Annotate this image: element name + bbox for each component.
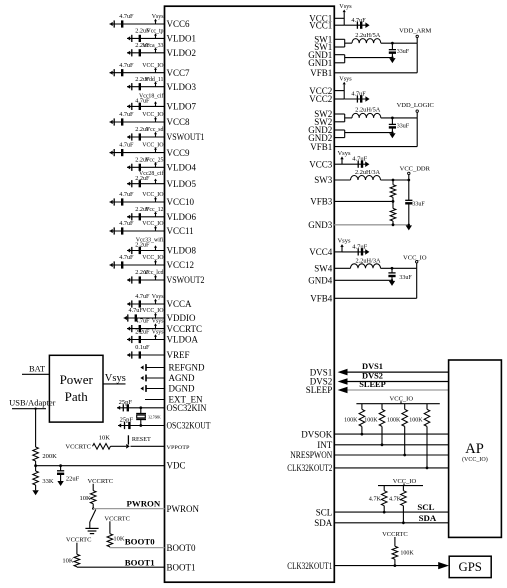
capacitor C5 2.2uF	[127, 76, 150, 91]
capacitor C14 4.7uF	[110, 220, 135, 235]
wire VFB4 feedback	[334, 268, 416, 298]
svg-text:DVS1: DVS1	[362, 362, 383, 371]
svg-text:VCC11: VCC11	[167, 226, 194, 236]
svg-text:(VCC_IO): (VCC_IO)	[462, 456, 488, 463]
pin label VCC12	[167, 260, 195, 270]
pin label SW3 (right)	[314, 175, 333, 185]
pin label SW4 (right)	[314, 264, 333, 274]
pin label SW1 (right)	[314, 35, 332, 45]
pin label VFB3 (right)	[310, 197, 333, 207]
svg-text:INT: INT	[317, 440, 332, 450]
svg-text:VFB3: VFB3	[310, 197, 333, 207]
svg-text:Vcc_tp: Vcc_tp	[146, 29, 163, 35]
net Vsys	[152, 294, 164, 304]
net VCC_IO	[142, 308, 164, 318]
net Vcc_sd	[146, 127, 164, 137]
wire SW4 to VCC_IO	[381, 267, 417, 269]
wire CLK32KOUT1 to GPS	[334, 562, 449, 569]
ground pin AGND	[140, 375, 164, 382]
capacitor 4.7uF (VCC3)	[352, 156, 369, 168]
svg-text:SW3: SW3	[314, 175, 333, 185]
wire VCC4 pin	[334, 251, 365, 253]
net Vcc_tp	[146, 29, 163, 39]
svg-text:Vcca_33: Vcca_33	[143, 43, 164, 49]
svg-text:Vsys: Vsys	[105, 373, 126, 384]
svg-text:VLDO6: VLDO6	[167, 212, 197, 222]
capacitor 4.7uF (VCC1)	[344, 17, 369, 29]
resistor R9 100K (CLK32KOUT1)	[392, 537, 414, 567]
capacitor C22 0.1uF	[127, 344, 150, 359]
pin label VLDOA	[167, 335, 199, 345]
net label BOOT0	[125, 537, 155, 547]
svg-text:VCC_IO: VCC_IO	[142, 221, 164, 227]
pin label CLK32KOUT2 (right)	[287, 463, 332, 473]
pin label VLDO5	[167, 179, 197, 189]
IC U1 PMIC body	[165, 6, 335, 582]
resistor 4.7K (SDA)	[389, 486, 406, 525]
svg-text:VCCRTC: VCCRTC	[66, 537, 92, 544]
wire VCC3 pin	[334, 163, 365, 165]
wire VCCRTC pin	[127, 328, 165, 330]
pin label DGND	[169, 384, 195, 394]
pin label SW2 (right)	[314, 117, 332, 127]
pin label VCC3 (right)	[309, 159, 333, 169]
net Vsys (power path output)	[103, 373, 126, 384]
wire NRESPWON	[334, 454, 448, 456]
capacitor C8 2.2uF	[127, 126, 150, 141]
svg-text:2.2uH/3A: 2.2uH/3A	[355, 169, 380, 176]
pin label SW2 (right)	[314, 109, 332, 119]
wire VCC11 pin	[110, 230, 165, 232]
wire OSC32KIN pin	[117, 407, 165, 409]
svg-text:VLDO5: VLDO5	[167, 179, 197, 189]
svg-text:Vsys: Vsys	[337, 238, 350, 245]
inductor L3 2.2uH/3A	[351, 169, 381, 180]
wire VLDOA pin	[127, 339, 165, 341]
net VCCRTC (PWRON pullup)	[87, 478, 113, 485]
wire VLDO1 pin	[127, 37, 165, 39]
net VCCRTC (GPS clock pullup)	[382, 531, 408, 538]
svg-text:SLEEP: SLEEP	[306, 385, 333, 395]
capacitor C17 2.2uF	[127, 269, 150, 284]
svg-text:GND4: GND4	[308, 276, 332, 286]
net Vcc18_cif	[139, 93, 164, 107]
svg-text:VCCRTC: VCCRTC	[382, 531, 408, 538]
svg-text:4.7uF: 4.7uF	[352, 156, 367, 163]
block AP application processor	[449, 360, 502, 537]
svg-text:Vcc_sd: Vcc_sd	[146, 127, 164, 133]
wire OSC32KOUT pin	[118, 425, 165, 427]
svg-text:VFB1: VFB1	[310, 142, 332, 152]
svg-text:Vcc33_wifi: Vcc33_wifi	[136, 237, 164, 244]
wire VCC12 pin	[110, 264, 165, 266]
net Vsys	[152, 14, 164, 24]
wire SW3 pin	[334, 179, 350, 181]
net Vcc_12	[145, 207, 163, 217]
svg-text:VCC4: VCC4	[309, 247, 333, 257]
pin label VSWOUT2	[167, 275, 205, 285]
ground (GND2)	[389, 131, 395, 138]
capacitor C12 4.7uF	[110, 191, 135, 206]
wire GND1 pins bracket	[334, 55, 392, 63]
svg-text:REFGND: REFGND	[169, 363, 206, 373]
pin label VLDO1	[167, 34, 197, 44]
net VDD_LOGIC	[397, 102, 434, 118]
switch SW RESET	[126, 435, 151, 448]
svg-text:VCC2: VCC2	[309, 94, 332, 104]
net VCCRTC (reset pullup)	[65, 444, 91, 451]
net label PWRON	[127, 499, 161, 509]
svg-text:BOOT1: BOOT1	[167, 562, 196, 572]
pin label VCC6	[167, 19, 191, 29]
net VCC_IO	[142, 221, 164, 231]
net VCC_IO	[142, 255, 164, 265]
wire VLDO8 pin	[127, 250, 165, 252]
svg-text:4.7uF: 4.7uF	[129, 307, 144, 314]
svg-text:VLDO4: VLDO4	[167, 163, 197, 173]
svg-text:4.7uF: 4.7uF	[119, 111, 134, 118]
wire DVSOK	[334, 433, 448, 435]
net Vsys	[152, 319, 164, 329]
wire VSWOUT1 pin	[127, 136, 165, 138]
wire VREF pin	[127, 354, 165, 356]
svg-text:VCC_IO: VCC_IO	[390, 396, 414, 403]
net VDD_ARM	[399, 27, 431, 43]
svg-text:VCCRTC: VCCRTC	[87, 478, 113, 485]
svg-text:4.7uF: 4.7uF	[119, 62, 134, 69]
capacitor 4.7uF (VCC2)	[344, 91, 369, 103]
capacitor C9 4.7uF	[110, 142, 135, 157]
svg-text:Vcc18_cif: Vcc18_cif	[139, 93, 164, 100]
net VCC_IO (buck4)	[403, 255, 427, 269]
wire VLDO2 pin	[127, 52, 165, 54]
pin label SLEEP (right)	[306, 385, 333, 395]
svg-text:VLDO2: VLDO2	[167, 48, 197, 58]
wire SW2 pins bracket	[334, 114, 352, 122]
wire CLK32KOUT2	[334, 467, 448, 469]
svg-text:Vsys: Vsys	[152, 294, 164, 300]
svg-text:25pF: 25pF	[120, 416, 134, 423]
capacitor C4 4.7uF	[110, 62, 135, 77]
wire VCC7 pin	[110, 72, 165, 74]
capacitor 33uF (VDD_ARM)	[389, 42, 410, 58]
capacitor C1 4.7uF	[110, 13, 135, 28]
pin label INT (right)	[317, 440, 332, 450]
pin label VLDO6	[167, 212, 197, 222]
net label SLEEP	[359, 380, 386, 389]
svg-text:VCC_IO: VCC_IO	[142, 255, 164, 261]
resistor R3b (VFB3 lower)	[390, 201, 396, 224]
svg-text:OSC32KOUT: OSC32KOUT	[167, 421, 211, 431]
svg-text:SLEEP: SLEEP	[359, 380, 386, 389]
wire USB node down	[34, 408, 36, 448]
block GPS	[449, 556, 491, 577]
net Vcc_25	[145, 157, 163, 167]
svg-text:25pF: 25pF	[119, 399, 133, 406]
svg-text:VLDOA: VLDOA	[167, 335, 199, 345]
svg-text:CLK32KOUT1: CLK32KOUT1	[287, 561, 332, 571]
svg-text:100K: 100K	[344, 418, 358, 424]
resistor 100K (pullup CLK32KOUT2)	[409, 404, 430, 470]
wire VCC9 pin	[110, 152, 165, 154]
svg-text:RESET: RESET	[132, 436, 151, 443]
pin label GND2 (right)	[308, 125, 332, 135]
capacitor C15 2.2uF	[127, 242, 150, 254]
svg-text:VCCRTC: VCCRTC	[104, 515, 130, 522]
svg-text:DVSOK: DVSOK	[301, 429, 333, 439]
svg-text:Vsys: Vsys	[339, 3, 352, 10]
svg-text:VPPOTP: VPPOTP	[167, 445, 190, 451]
wire BOOT0	[110, 546, 165, 549]
svg-text:AP: AP	[465, 441, 484, 457]
svg-text:VDDIO: VDDIO	[167, 313, 196, 323]
svg-text:22uF: 22uF	[66, 476, 80, 483]
ground (PWRON switch)	[85, 528, 98, 533]
svg-text:4.7uF: 4.7uF	[351, 17, 366, 24]
svg-text:Vcc_12: Vcc_12	[145, 207, 163, 213]
svg-text:Vcc_lcd: Vcc_lcd	[144, 270, 164, 276]
net VCC_IO	[142, 143, 164, 153]
svg-text:33uF: 33uF	[397, 124, 410, 130]
capacitor 33uF (VCC_DDR)	[405, 179, 425, 225]
block Power Path	[49, 355, 103, 422]
svg-text:VLDO3: VLDO3	[167, 82, 197, 92]
net Vcc28_cif	[139, 170, 164, 184]
svg-text:BOOT0: BOOT0	[167, 543, 196, 553]
net label SCL	[417, 502, 434, 512]
wire VLDO4 pin	[127, 166, 165, 168]
capacitor C7 4.7uF	[110, 111, 135, 126]
pin label VCC2 (right)	[309, 94, 332, 104]
svg-text:VCC8: VCC8	[167, 117, 191, 127]
net label BOOT1	[125, 557, 155, 567]
pin label DVS1 (right)	[310, 367, 333, 377]
svg-text:Vsys: Vsys	[152, 319, 164, 325]
net Vdd_11	[145, 77, 164, 87]
capacitor C23 25pF	[117, 399, 132, 412]
svg-text:VCC_IO: VCC_IO	[403, 255, 427, 262]
net Vcc33_wifi	[136, 237, 164, 251]
wire VFB1 feedback	[334, 118, 417, 147]
pin label VCC1 (right)	[309, 14, 332, 24]
net label DVS1	[362, 362, 383, 371]
capacitor C19 4.7uF	[124, 307, 144, 322]
net Vsys	[152, 330, 164, 340]
svg-text:100K: 100K	[364, 418, 378, 424]
capacitor C13 2.2uF	[127, 206, 150, 221]
resistor 4.7K (SCL)	[369, 486, 387, 514]
wire INT	[334, 444, 448, 446]
svg-text:VCC_IO: VCC_IO	[393, 478, 417, 485]
svg-text:10K: 10K	[99, 435, 111, 442]
capacitor 33uF (VDD_LOGIC)	[389, 117, 410, 133]
svg-text:4.7K: 4.7K	[369, 495, 382, 502]
svg-text:SCL: SCL	[316, 507, 333, 517]
pin label VSWOUT1	[167, 132, 205, 142]
pin label BOOT0	[167, 543, 196, 553]
wire SDA	[334, 522, 448, 524]
svg-text:4.7uF: 4.7uF	[135, 318, 150, 325]
pin label OSC32KIN	[167, 403, 207, 413]
pin label VLDO2	[167, 48, 197, 58]
capacitor 33uF (VCC_IO)	[388, 267, 412, 281]
net label DVS2	[362, 372, 383, 381]
svg-text:VLDO1: VLDO1	[167, 34, 197, 44]
svg-text:VDC: VDC	[167, 461, 186, 471]
ground pin REFGND	[140, 364, 164, 371]
wire GND2 pins bracket	[334, 130, 392, 138]
pin label OSC32KOUT	[167, 421, 211, 431]
svg-text:DGND: DGND	[169, 384, 195, 394]
svg-text:SDA: SDA	[419, 513, 437, 523]
svg-text:VCC_IO: VCC_IO	[142, 143, 164, 149]
pin label GND1 (right)	[308, 58, 332, 68]
wire switch to VPPOTP pin	[131, 445, 165, 447]
wire VLDO6 pin	[127, 216, 165, 218]
resistor R5 10K (reset)	[93, 435, 111, 450]
pin label VLDO7	[167, 102, 197, 112]
svg-text:Vsys: Vsys	[339, 75, 352, 82]
net VCCRTC (BOOT1 pullup)	[66, 537, 92, 544]
svg-text:4.7uF: 4.7uF	[352, 243, 367, 250]
pin label VFB1 (right)	[310, 142, 332, 152]
svg-text:VDD_ARM: VDD_ARM	[399, 27, 431, 34]
net VCC_IO (I2C rail)	[378, 478, 423, 486]
capacitor C11 2.2uF	[127, 175, 150, 187]
wire SW4 pin	[334, 267, 350, 269]
pin label VCC7	[167, 68, 191, 78]
ground (GND1)	[389, 56, 395, 63]
svg-text:Vsys: Vsys	[152, 330, 164, 336]
svg-text:VCC12: VCC12	[167, 260, 195, 270]
resistor R8 10K (BOOT1)	[62, 543, 79, 567]
wire VFB1 feedback	[334, 43, 417, 73]
pin label VLDO8	[167, 246, 197, 256]
ground (GND3)	[406, 224, 412, 231]
inductor L1 2.2uH/5A	[352, 32, 381, 43]
wire SW3 to VCC_DDR	[381, 179, 409, 181]
net Vsys (VCC4)	[337, 238, 350, 252]
net VCC_IO	[142, 112, 164, 122]
svg-text:VFB4: VFB4	[310, 294, 333, 304]
svg-text:VCC9: VCC9	[167, 148, 191, 158]
pin label GND2 (right)	[308, 133, 332, 143]
svg-text:GND1: GND1	[308, 58, 332, 68]
pin label SDA (right)	[314, 518, 333, 528]
wire VCC10 pin	[110, 201, 165, 203]
ground (22uF)	[57, 481, 63, 486]
svg-text:Power: Power	[60, 372, 94, 387]
wire VSWOUT2 pin	[127, 279, 165, 281]
svg-text:10K: 10K	[79, 495, 91, 502]
inductor L4 2.2uH/3A	[351, 257, 381, 268]
pin label CLK32KOUT1 (right)	[287, 561, 332, 571]
pin label SW1 (right)	[314, 42, 332, 52]
pin label VCC2 (right)	[309, 86, 332, 96]
wire VLDO5 pin	[127, 183, 165, 185]
capacitor C6 4.7uF	[127, 98, 150, 110]
ground pin DGND	[140, 385, 164, 392]
svg-text:VREF: VREF	[167, 350, 190, 360]
pin label VCC8	[167, 117, 191, 127]
svg-text:Vcc_25: Vcc_25	[145, 157, 163, 163]
wire VCC8 pin	[110, 121, 165, 123]
svg-text:2.2uH/5A: 2.2uH/5A	[355, 32, 380, 39]
svg-text:VCC_DDR: VCC_DDR	[400, 165, 431, 172]
svg-text:USB/Adapter: USB/Adapter	[9, 397, 55, 407]
pin label VCC4 (right)	[309, 247, 333, 257]
svg-text:VSWOUT1: VSWOUT1	[167, 132, 205, 142]
svg-text:VCC1: VCC1	[309, 20, 332, 30]
wire DVS2 from AP	[338, 378, 449, 385]
pin label VREF	[167, 350, 190, 360]
svg-text:VSWOUT2: VSWOUT2	[167, 275, 205, 285]
pin label VDC	[167, 461, 186, 471]
pin label DVSOK (right)	[301, 429, 333, 439]
resistor R1 200K	[33, 447, 57, 466]
capacitor C18 4.7uF	[127, 293, 150, 308]
wire VCCA pin	[127, 303, 165, 305]
svg-text:PWRON: PWRON	[127, 499, 161, 509]
svg-text:Vcc28_cif: Vcc28_cif	[139, 170, 164, 177]
svg-text:VCC_IO: VCC_IO	[142, 63, 164, 69]
net label SDA	[419, 513, 437, 523]
resistor R3a (VFB3 upper)	[390, 179, 396, 202]
svg-text:GPS: GPS	[458, 560, 481, 574]
resistor R6 10K (PWRON)	[79, 484, 96, 509]
capacitor C10 2.2uF	[127, 156, 150, 171]
wire SW2 to VDD_LOGIC	[381, 117, 417, 119]
capacitor C2 2.2uF	[127, 28, 150, 43]
svg-text:VCC_IO: VCC_IO	[142, 192, 164, 198]
node BAT	[22, 363, 49, 374]
svg-text:VCC6: VCC6	[167, 19, 191, 29]
svg-text:33uF: 33uF	[397, 49, 410, 55]
wire BOOT1	[77, 566, 165, 569]
pin label VLDO4	[167, 163, 197, 173]
capacitor C24 25pF	[118, 416, 133, 429]
svg-text:VDD_LOGIC: VDD_LOGIC	[397, 102, 434, 109]
svg-text:VCC7: VCC7	[167, 68, 191, 78]
pin label VCC1 (right)	[309, 20, 332, 30]
wire VFB3 pin	[334, 200, 394, 203]
net VCC_DDR	[400, 165, 431, 180]
inductor L2 2.2uH/5A	[352, 107, 381, 118]
svg-text:VCC_IO: VCC_IO	[142, 308, 164, 314]
wire VLDO3 pin	[127, 86, 165, 88]
svg-text:BAT: BAT	[29, 363, 46, 373]
pin label PWRON	[167, 504, 200, 514]
net VCC_IO	[142, 192, 164, 202]
svg-text:SW4: SW4	[314, 264, 333, 274]
svg-text:GND3: GND3	[308, 220, 332, 230]
svg-text:4.7uF: 4.7uF	[119, 220, 134, 227]
wire EXT_EN stub	[145, 399, 165, 401]
svg-text:Path: Path	[65, 389, 89, 404]
svg-text:OSC32KIN: OSC32KIN	[167, 403, 207, 413]
wire SCL	[334, 511, 448, 513]
svg-text:0.1uF: 0.1uF	[135, 344, 150, 351]
svg-text:VCC_IO: VCC_IO	[142, 112, 164, 118]
wire SLEEP from AP	[338, 387, 449, 394]
wire VCC2 pins	[334, 91, 344, 99]
net Vcc_lcd	[144, 270, 164, 280]
svg-text:33uF: 33uF	[399, 275, 412, 281]
pin label VLDO3	[167, 82, 197, 92]
wire VLDO7 pin	[127, 105, 165, 107]
net Vcca_33	[143, 43, 164, 53]
pin label VDDIO	[167, 313, 196, 323]
